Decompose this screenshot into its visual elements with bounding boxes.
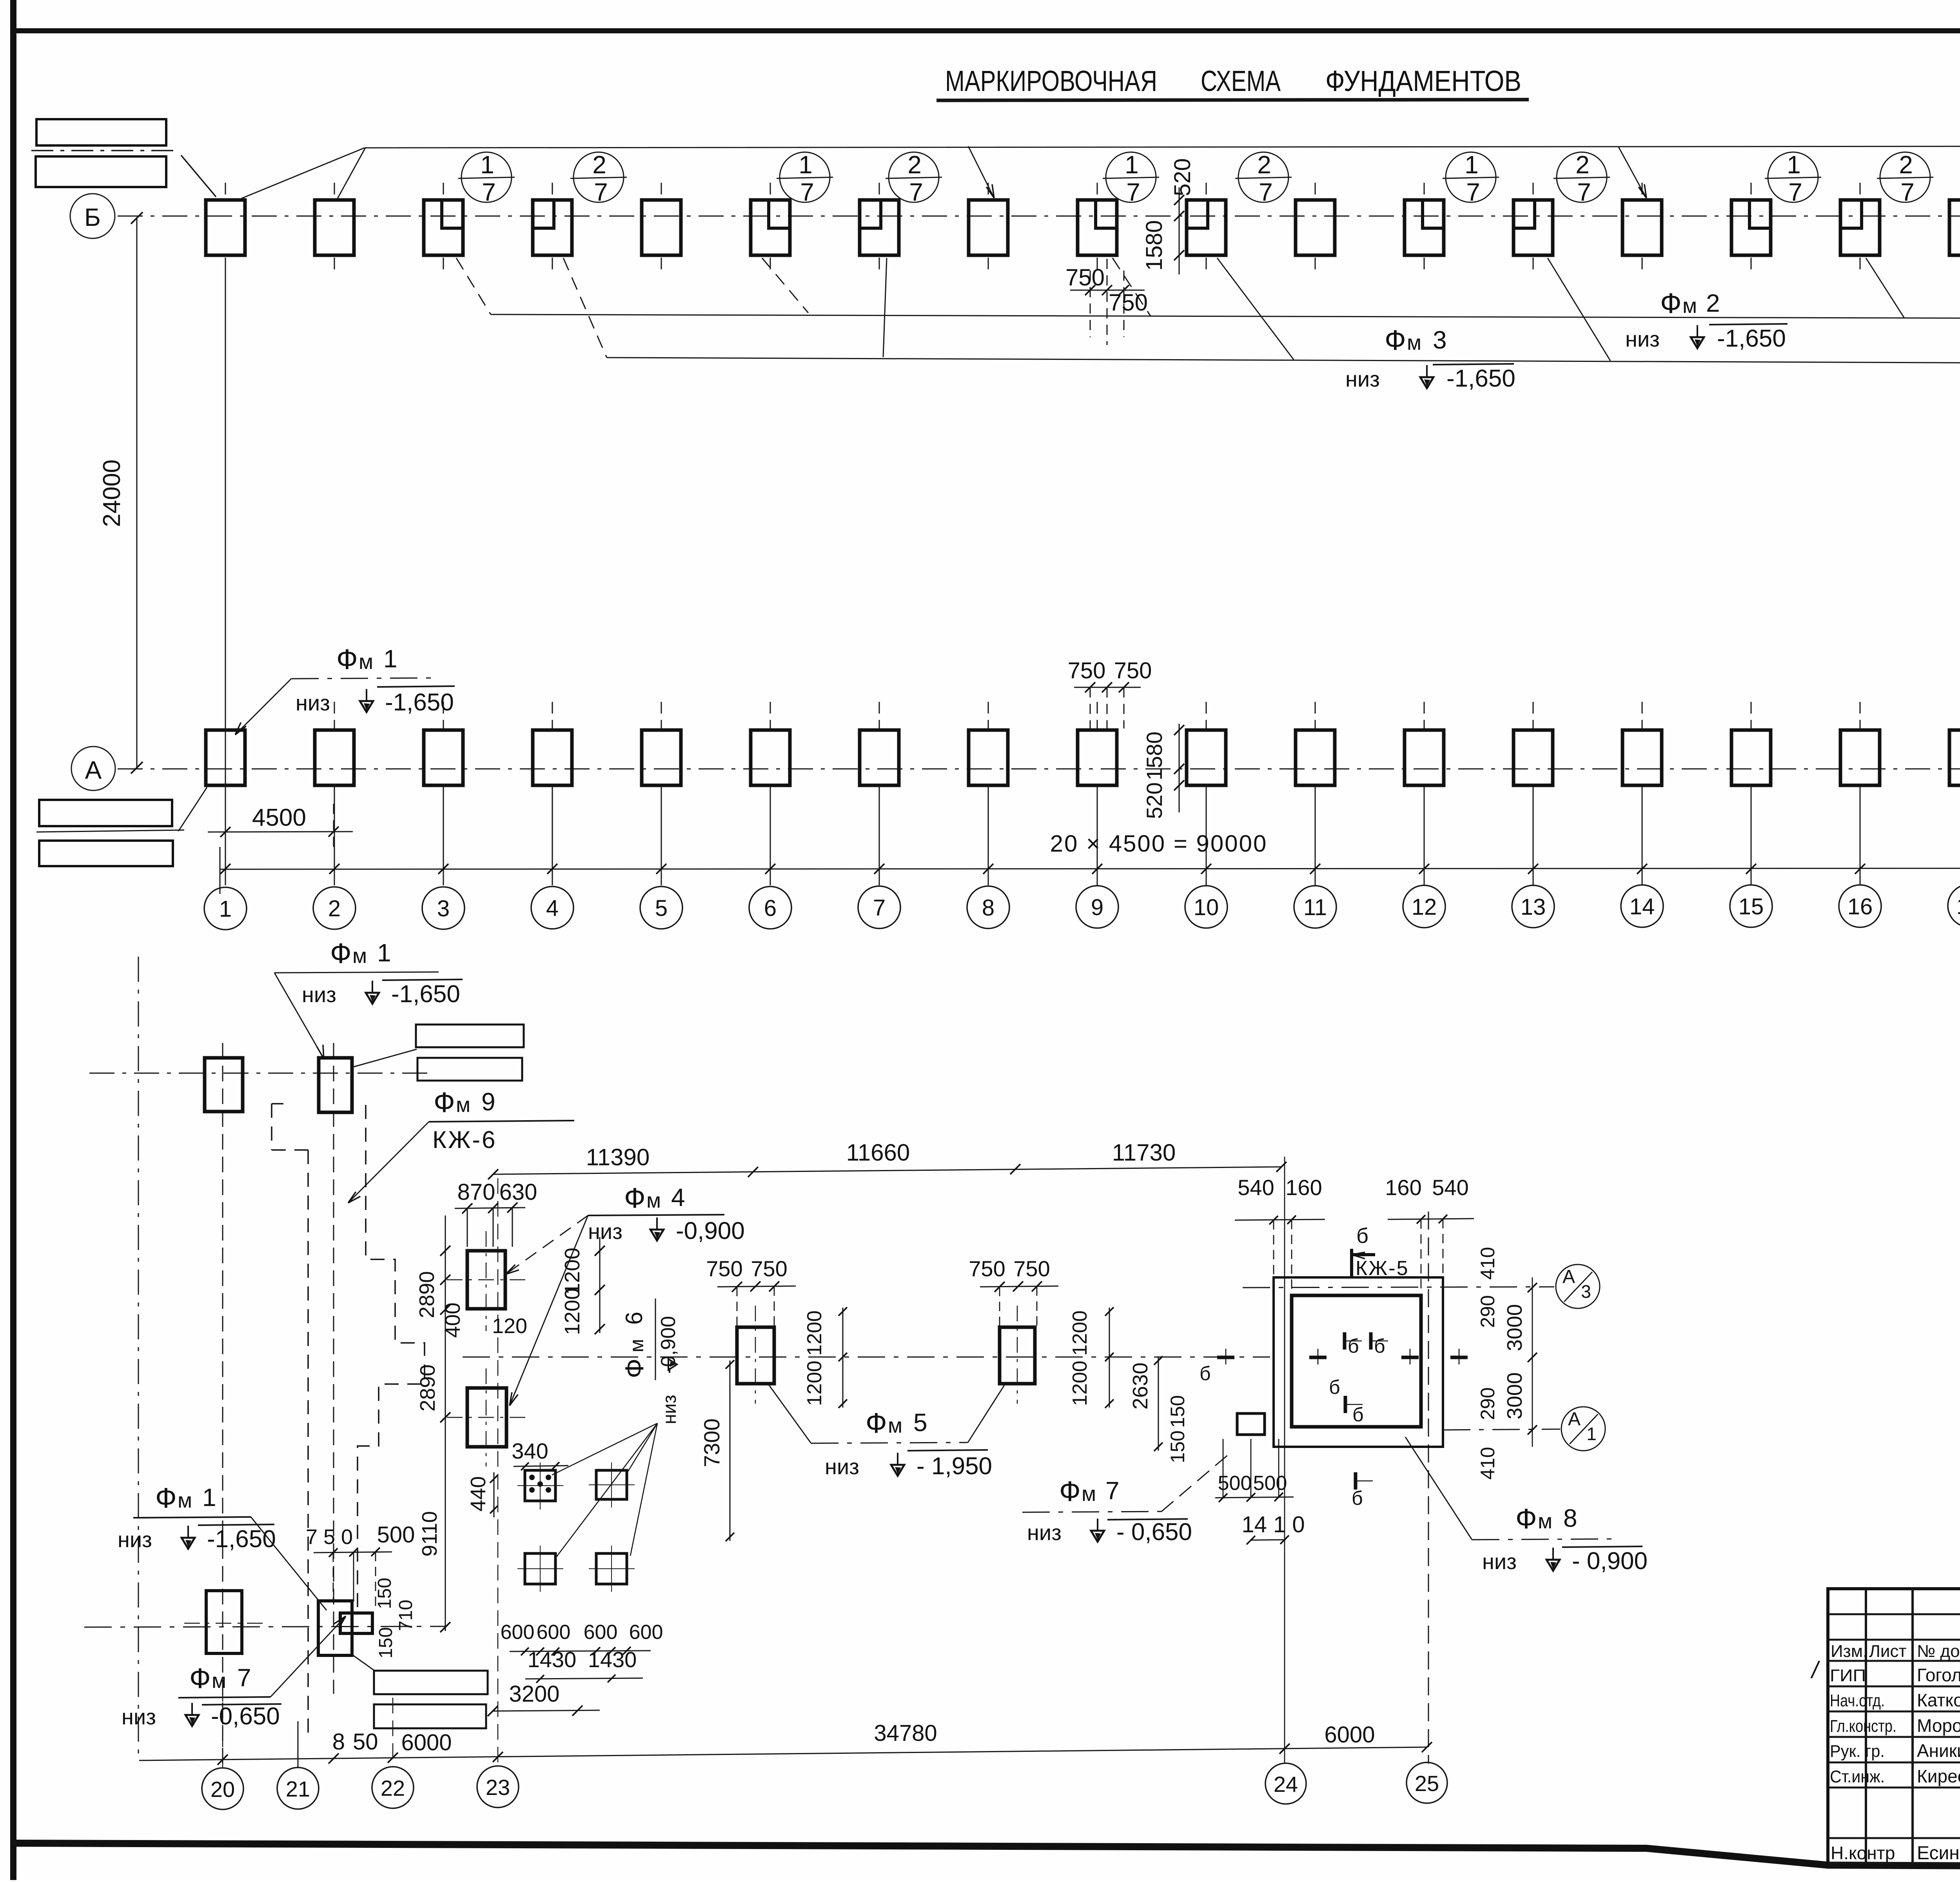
leader diag col3 to Фм2 line [456,258,491,314]
svg-text:1200: 1200 [803,1310,826,1356]
foundation Фм1 row А column 5 [642,730,681,785]
grid circle 23 (fragment) [477,1766,519,1808]
fragment top axis [89,1073,434,1074]
svg-text:400: 400 [441,1303,465,1338]
axis Б center line [118,216,1960,217]
svg-text:-1,650: -1,650 [385,689,454,716]
svg-text:Ф: Ф [336,644,358,675]
svg-text:4500: 4500 [252,804,306,831]
svg-text:Есина: Есина [1917,1843,1960,1864]
column 7 centerline stubs row Б [879,183,880,198]
column 12 centerline stubs row А [1424,702,1425,728]
axis А/3 line [1243,1287,1554,1288]
grid circle 20 (fragment) [202,1768,243,1809]
title block horizontals left part [1828,1613,1960,1615]
foundation Фм1 row А column 4 [533,730,572,785]
svg-text:5: 5 [655,896,668,921]
dim 3000 3000 [1532,1277,1533,1447]
rail axis dash-dot [31,150,178,151]
dim 1200 1200 Фм5 left [842,1308,844,1408]
column 3 centerline stubs row А [443,702,444,728]
detail mark circle 1/7 [461,152,512,202]
foundation Фм row Б column 10 [1187,200,1226,255]
svg-text:м: м [626,1339,648,1352]
svg-text:7: 7 [873,895,886,921]
svg-text:23: 23 [486,1775,510,1800]
svg-text:8: 8 [1563,1504,1577,1532]
svg-text:-1,650: -1,650 [207,1526,276,1553]
sheet frame [10,0,16,1880]
svg-text:2: 2 [328,896,341,921]
svg-text:м: м [1538,1510,1552,1533]
svg-text:Ф: Ф [620,1359,649,1378]
foundation Фм5 right [1000,1327,1035,1384]
svg-text:1: 1 [1586,1424,1597,1444]
svg-text:низ: низ [659,1395,680,1424]
svg-text:1: 1 [1465,151,1479,179]
svg-text:б: б [1356,1224,1368,1248]
leader Фм1 to col 8 [968,146,994,198]
svg-text:16: 16 [1847,894,1873,919]
svg-text:24000: 24000 [98,460,125,527]
lower-left foundation Фм7 on axis 20 [206,1591,242,1653]
svg-text:50: 50 [353,1729,378,1755]
svg-text:- 1,950: - 1,950 [916,1453,992,1480]
svg-text:340: 340 [512,1439,548,1463]
foundation Фм row Б column 4 [533,200,572,255]
foundation Фм1 row А column 6 [751,730,790,785]
column 1 full axis line [225,259,226,885]
dimension 2890 / 400 [445,1215,446,1631]
svg-text:3: 3 [437,896,450,921]
svg-text:Гл.констр.: Гл.констр. [1830,1717,1896,1736]
foundation Фм row Б column 16 [1840,200,1880,255]
grid circle Б [70,194,115,238]
svg-text:7: 7 [909,178,923,206]
svg-text:м: м [352,944,367,968]
grid circle 21 (fragment) [277,1768,319,1809]
leader diag col4 to Фм3 line [563,258,607,358]
svg-text:440: 440 [466,1476,490,1511]
svg-text:12: 12 [1412,894,1437,920]
svg-text:-1,650: -1,650 [391,981,460,1008]
column 14 centerline stubs row Б [1642,183,1643,198]
foundation Фм row Б column 13 [1514,200,1553,255]
svg-text:Ст.инж.: Ст.инж. [1830,1767,1885,1786]
foundation Фм row Б column 6 [751,200,790,255]
svg-text:Киреев: Киреев [1917,1766,1960,1786]
foundation Фм1 fragment col21 top [319,1058,352,1112]
svg-text:150: 150 [1167,1430,1189,1463]
foundation Фм row Б column 1 [206,200,245,255]
svg-text:290: 290 [1477,1387,1499,1420]
svg-text:Нач.отд.: Нач.отд. [1830,1691,1885,1710]
svg-text:870: 870 [457,1179,495,1205]
svg-text:Ф: Ф [624,1183,646,1214]
leader diag col9 to Фм2 line [1112,258,1151,316]
svg-text:750: 750 [1065,264,1105,291]
detail mark circle 1/7 [1446,152,1496,202]
svg-text:160: 160 [1285,1175,1322,1200]
svg-text:630: 630 [499,1179,537,1205]
svg-text:м: м [1682,294,1697,318]
svg-text:-0,900: -0,900 [676,1217,745,1244]
grid circle 24 (fragment) [1265,1763,1306,1804]
svg-text:1200: 1200 [561,1288,584,1335]
leader rect21 to rails [352,1049,417,1067]
svg-text:7: 7 [1466,178,1480,206]
svg-text:низ: низ [1625,327,1660,351]
dimension chain 11390 / 11660 / 11730 [493,1167,1281,1174]
foundation Фм row Б column 12 [1405,200,1444,255]
svg-text:м: м [359,650,373,674]
column 12 centerline stubs row Б [1424,183,1425,198]
svg-text:750: 750 [1109,289,1148,316]
svg-text:3200: 3200 [509,1681,559,1707]
svg-text:4: 4 [546,896,559,921]
svg-text:750: 750 [1013,1256,1050,1281]
svg-text:1430: 1430 [588,1647,637,1672]
svg-text:Аникин: Аникин [1917,1740,1960,1761]
svg-text:2630: 2630 [1129,1362,1152,1410]
column 7 centerline stubs row А [879,702,880,728]
foundation Фм8 outer [1274,1277,1443,1447]
svg-text:15: 15 [1739,894,1764,919]
svg-text:1: 1 [1125,151,1139,179]
foundation Фм1 row А column 8 [969,730,1008,785]
svg-text:750: 750 [751,1256,787,1281]
title block outer [1828,1589,1960,1864]
svg-text:8: 8 [982,895,995,921]
foundation Фм1 fragment col20 top [205,1058,243,1112]
end bars of 90000 dimension [220,847,221,894]
column 4 centerline stubs row Б [552,183,553,198]
svg-text:410: 410 [1477,1247,1499,1279]
svg-text:низ: низ [588,1219,622,1244]
leader diag col10 to Фм3 line [1217,258,1294,360]
svg-text:-1,650: -1,650 [1717,325,1786,352]
rail track symbol top-left: bar 2 [36,156,166,187]
svg-text:КЖ-5: КЖ-5 [1356,1257,1409,1280]
svg-text:А: А [85,756,102,784]
dimension line 20 x 4500 = 90000 [220,868,1960,869]
svg-text:низ: низ [1027,1520,1062,1545]
svg-text:10: 10 [1194,895,1219,920]
column 13 centerline stubs row А [1533,702,1534,728]
dimension 1200 1200 at Фм4 [599,1237,601,1333]
svg-text:1200: 1200 [561,1248,584,1295]
svg-text:Ф: Ф [189,1663,211,1694]
svg-text:А: А [1568,1409,1581,1430]
svg-text:б: б [1374,1335,1385,1357]
grid circle А/3 [1556,1264,1600,1308]
svg-text:9: 9 [1091,895,1103,920]
svg-text:600: 600 [501,1621,535,1644]
title underline [936,100,1529,100]
svg-text:5: 5 [913,1408,927,1437]
svg-text:1: 1 [383,645,397,673]
foundation Фм1 row А column 2 [315,730,354,785]
dimension 1580 / 520 row А [1179,724,1180,812]
svg-text:1200: 1200 [1069,1361,1091,1406]
svg-text:7300: 7300 [699,1419,724,1468]
svg-text:120: 120 [492,1314,527,1338]
column 11 centerline stubs row А [1315,702,1316,728]
svg-text:1: 1 [799,151,813,179]
leader diag col13 to Фм3 line [1548,258,1610,361]
rail track symbol left-middle: bar 1 [39,800,172,826]
svg-text:7: 7 [237,1664,251,1692]
svg-text:Н.контр: Н.контр [1831,1843,1895,1863]
svg-text:б: б [1329,1376,1340,1398]
grid circle 6 [749,887,791,929]
svg-text:Гоголев: Гоголев [1917,1665,1960,1685]
svg-text:м: м [212,1669,226,1693]
grid circle 3 [422,887,465,929]
detail mark circle 2/7 [1557,152,1607,202]
svg-text:2: 2 [907,151,922,179]
foundation Фм1 row А column 12 [1405,730,1444,785]
column 3 centerline stubs row Б [443,183,444,198]
Фм3 leader line [607,358,1960,364]
grid circle 7 [858,886,900,928]
axis А center line [118,768,1960,770]
grid circle 16 [1839,885,1881,927]
svg-text:Ф: Ф [434,1087,455,1118]
foundation Фм1 row А column 10 [1187,730,1226,785]
grid circle 8 [967,886,1009,928]
svg-text:-0,650: -0,650 [211,1703,280,1730]
lower-left foundation complex col21: small rect [340,1613,372,1633]
column 2 centerline stubs row Б [334,183,335,198]
foundation Фм8 inner [1292,1295,1421,1427]
foundation Фм4 lower [467,1388,506,1447]
column 11 centerline stubs row Б [1315,183,1316,198]
leader line Фм2 [491,314,1960,319]
svg-text:1580: 1580 [1142,220,1167,271]
detail mark circle 1/7 [1106,152,1156,202]
column 6 centerline stubs row А [770,702,771,728]
foundation Фм1 row А column 11 [1296,730,1335,785]
grid circle А [71,747,115,790]
svg-text:Лист: Лист [1869,1642,1907,1661]
squares Фм6 group [525,1470,555,1501]
svg-text:-0,900: -0,900 [657,1316,680,1373]
svg-text:20: 20 [211,1777,235,1802]
dimension 24000 [136,218,138,768]
column 10 centerline stubs row А [1206,702,1207,728]
foundation Фм row Б column 8 [969,200,1008,255]
svg-text:150: 150 [374,1578,395,1609]
svg-text:7: 7 [594,178,608,206]
svg-text:2: 2 [1257,151,1271,179]
grid circle 13 [1512,885,1554,928]
svg-text:520: 520 [1142,782,1167,819]
svg-text:20 × 4500 = 90000: 20 × 4500 = 90000 [1050,830,1268,857]
svg-text:150: 150 [1167,1395,1189,1428]
svg-text:2: 2 [592,151,606,179]
foundation Фм row Б column 15 [1731,200,1771,255]
svg-text:низ: низ [122,1704,156,1729]
svg-text:ГИП: ГИП [1830,1666,1866,1685]
svg-text:м: м [456,1093,470,1117]
dim 1200 1200 Фм5 right [1109,1308,1110,1408]
svg-text:34780: 34780 [874,1720,937,1746]
foundation Фм1 row А column 15 [1731,730,1771,785]
svg-text:Катков: Катков [1917,1690,1960,1710]
grid circle 11 [1294,886,1336,928]
svg-text:24: 24 [1274,1772,1298,1797]
svg-text:1200: 1200 [803,1361,826,1406]
grid circle 22 (fragment) [372,1767,414,1808]
foundation Фм1 row А column 1 [206,730,245,785]
svg-text:1: 1 [219,896,232,922]
excavation outline dashed [272,1104,308,1733]
svg-text:МАРКИРОВОЧНАЯ: МАРКИРОВОЧНАЯ [945,65,1157,97]
svg-text:Морозова: Морозова [1917,1715,1960,1736]
svg-text:3000: 3000 [1503,1304,1526,1351]
svg-text:3: 3 [1433,326,1447,354]
svg-text:4: 4 [671,1183,685,1212]
svg-text:Ф: Ф [330,938,352,969]
foundation Фм5 left [737,1327,774,1384]
svg-text:1: 1 [480,151,494,179]
column 9 centerline stubs row А [1097,702,1098,728]
svg-text:9: 9 [481,1088,495,1116]
column 16 centerline stubs row А [1860,702,1861,728]
svg-text:3000: 3000 [1503,1372,1526,1419]
rail track symbol fragment: bar 1 [416,1025,524,1047]
svg-text:2: 2 [1899,151,1913,179]
svg-text:540: 540 [1238,1175,1274,1200]
foundation Фм row Б column 7 [860,200,899,255]
detail mark circle 2/7 [889,152,939,202]
grid circle 1 [204,887,247,930]
svg-text:540: 540 [1432,1175,1468,1200]
svg-text:Ф: Ф [1660,288,1682,319]
leader Фм1 to col 1 [241,148,365,198]
svg-text:290: 290 [1477,1295,1499,1328]
foundation Фм4 upper [467,1251,505,1309]
foundation Фм7 small [1237,1413,1265,1435]
svg-text:7: 7 [482,178,496,206]
svg-text:8: 8 [332,1729,345,1755]
svg-text:1: 1 [1787,151,1801,179]
foundation Фм row Б column 17 [1949,200,1960,255]
svg-text:- 0,900: - 0,900 [1572,1548,1648,1575]
svg-text:Ф: Ф [1059,1476,1081,1507]
svg-text:600: 600 [584,1621,618,1644]
foundation Фм1 row А column 13 [1514,730,1553,785]
svg-text:2: 2 [1706,289,1720,317]
svg-text:м: м [1407,331,1421,354]
svg-text:750: 750 [1068,658,1106,683]
svg-text:м: м [888,1414,902,1437]
column 25 axis vertical [1428,1212,1429,1764]
foundation Фм1 row А column 9 [1078,730,1117,785]
svg-text:7: 7 [1788,178,1802,206]
svg-text:м: м [646,1189,661,1212]
foundation Фм row Б column 2 [315,200,354,255]
column 13 centerline stubs row Б [1533,183,1534,198]
grid circle 9 [1076,886,1118,928]
svg-text:22: 22 [381,1776,405,1800]
svg-text:Ф: Ф [1515,1503,1537,1535]
svg-text:7: 7 [1105,1477,1120,1505]
svg-text:520: 520 [1170,158,1195,196]
leader Фм1 to col 14 [1618,146,1646,198]
grid circle 4 [531,887,573,929]
svg-text:КЖ-6: КЖ-6 [432,1126,497,1154]
svg-text:7: 7 [1577,178,1591,206]
svg-text:низ: низ [1482,1549,1517,1574]
svg-text:7 5 0: 7 5 0 [306,1525,353,1549]
column 5 centerline stubs row А [661,702,662,728]
svg-text:500: 500 [377,1522,415,1548]
fragment left boundary axis [138,957,139,1759]
grid circle 5 [640,887,682,929]
svg-text:7: 7 [1259,178,1273,206]
svg-text:11730: 11730 [1112,1139,1176,1166]
svg-text:б: б [1352,1487,1363,1509]
rail track symbol left-middle: bar 2 [39,841,173,866]
svg-text:низ: низ [118,1527,152,1552]
lower-left axis Фм7 row [84,1626,447,1627]
svg-text:25: 25 [1415,1771,1439,1796]
svg-text:м: м [1082,1482,1096,1506]
column 10 centerline stubs row Б [1206,183,1207,198]
svg-text:низ: низ [296,690,330,715]
svg-text:ФУНДАМЕНТОВ: ФУНДАМЕНТОВ [1325,65,1521,97]
detail mark circle 1/7 [780,152,830,202]
svg-text:7: 7 [1900,178,1915,206]
axis А/1 line [1443,1429,1560,1430]
svg-text:низ: низ [302,982,336,1007]
svg-text:14 1 0: 14 1 0 [1241,1512,1305,1537]
svg-text:21: 21 [286,1777,310,1801]
lower-left foundation complex col21: big rect [318,1601,352,1655]
rail track symbol lower: bar 2 [374,1704,486,1728]
svg-text:9110: 9110 [418,1511,441,1557]
svg-text:500: 500 [1253,1472,1287,1495]
svg-text:750: 750 [1114,658,1152,683]
grid circle 17 [1948,885,1960,927]
svg-text:17: 17 [1956,894,1960,919]
column 8 centerline stubs row А [988,702,989,728]
svg-text:11390: 11390 [586,1144,650,1170]
svg-text:Изм.: Изм. [1831,1642,1867,1661]
column 24 axis vertical [1284,1157,1285,1764]
grid circle 15 [1730,885,1772,927]
svg-text:2890: 2890 [416,1364,439,1411]
rail track symbol fragment: bar 2 [417,1058,522,1081]
detail mark circle 2/7 [573,152,624,202]
svg-text:11660: 11660 [846,1139,910,1166]
rail track symbol top-left: bar 1 [36,119,166,145]
column 4 centerline stubs row А [552,702,553,728]
dimension 520 / 1580 row Б [1179,187,1180,274]
fragment mid axis [463,1357,1270,1358]
svg-text:7: 7 [1126,178,1140,206]
leader diag col7 to Фм3 line [883,258,887,357]
svg-text:160: 160 [1385,1175,1421,1200]
svg-text:СХЕМА: СХЕМА [1201,65,1281,97]
grid circle 14 [1621,885,1663,927]
svg-text:Рук. гр.: Рук. гр. [1830,1742,1885,1761]
grid circle 10 [1185,886,1227,928]
detail mark circle 2/7 [1238,152,1289,202]
column 8 centerline stubs row Б [988,183,989,198]
